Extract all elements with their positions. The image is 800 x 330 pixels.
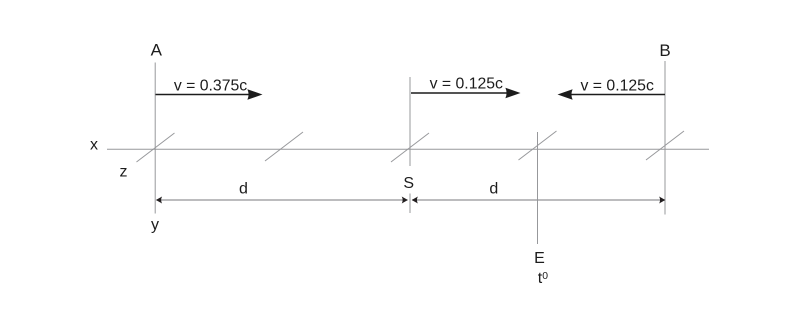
svg-text:v = 0.125c: v = 0.125c — [430, 76, 503, 93]
worldline S (vertical, upper segment) — [409, 77, 411, 166]
dimension line A to S — [157, 199, 408, 201]
worldline A (vertical) — [154, 63, 156, 214]
svg-text:y: y — [151, 217, 159, 234]
velocity arrow of A (v = 0.375c) — [156, 94, 250, 96]
velocity arrow of B (v = 0.125c, leftward) — [571, 94, 665, 96]
x-axis line — [107, 148, 709, 150]
svg-text:d: d — [239, 181, 248, 198]
worldline E (vertical) — [537, 132, 539, 244]
dimension line S to B — [412, 199, 665, 201]
svg-text:d: d — [489, 181, 498, 198]
slash tick between A and S — [265, 132, 303, 161]
svg-text:v = 0.375c: v = 0.375c — [174, 78, 247, 95]
svg-text:B: B — [659, 41, 670, 60]
slash tick at B — [646, 131, 684, 160]
slash tick at S — [391, 133, 429, 162]
svg-text:A: A — [151, 41, 163, 60]
worldline B (vertical) — [664, 61, 666, 215]
slash tick at A — [137, 133, 175, 162]
svg-text:E: E — [534, 250, 545, 267]
svg-text:S: S — [403, 175, 414, 192]
svg-text:v = 0.125c: v = 0.125c — [581, 78, 654, 95]
svg-text:z: z — [120, 164, 128, 181]
worldline S (vertical, lower segment) — [409, 194, 411, 214]
velocity arrow near S (v = 0.125c, rightward) — [411, 92, 507, 94]
slash tick at E — [519, 131, 557, 160]
svg-text:x: x — [90, 137, 98, 154]
